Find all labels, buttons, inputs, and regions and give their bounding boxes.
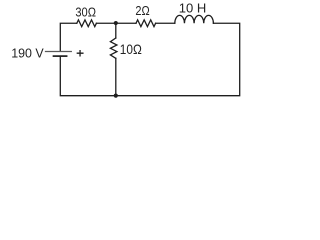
plus sign of source	[77, 51, 83, 56]
svg-text:2Ω: 2Ω	[135, 3, 149, 18]
wire: 30Ω to 2Ω through top node	[96, 22, 136, 24]
svg-text:10Ω: 10Ω	[120, 41, 142, 57]
wire: 2Ω to inductor	[156, 22, 175, 24]
wire top-left: from top-left corner to 30Ω resistor	[60, 23, 77, 51]
wire: middle branch from top node down to 10Ω	[115, 23, 117, 38]
node junction bottom	[114, 94, 118, 98]
inductor L1 10 H (4 humps)	[175, 15, 214, 23]
resistor R3 10Ω vertical zigzag	[110, 38, 117, 58]
svg-text:190 V: 190 V	[11, 45, 44, 60]
node junction top	[114, 21, 118, 25]
svg-text:10 H: 10 H	[179, 0, 207, 15]
resistor R2 2Ω zigzag	[136, 20, 156, 27]
svg-text:30Ω: 30Ω	[75, 5, 96, 20]
resistor R1 30Ω zigzag	[77, 20, 97, 27]
wire: inductor to top-right corner, down right side, along bottom	[60, 23, 239, 95]
wire: 10Ω down to bottom node	[115, 58, 117, 95]
voltage source V1 negative plate (short)	[54, 55, 67, 57]
voltage source V1 positive plate (long)	[46, 51, 72, 53]
